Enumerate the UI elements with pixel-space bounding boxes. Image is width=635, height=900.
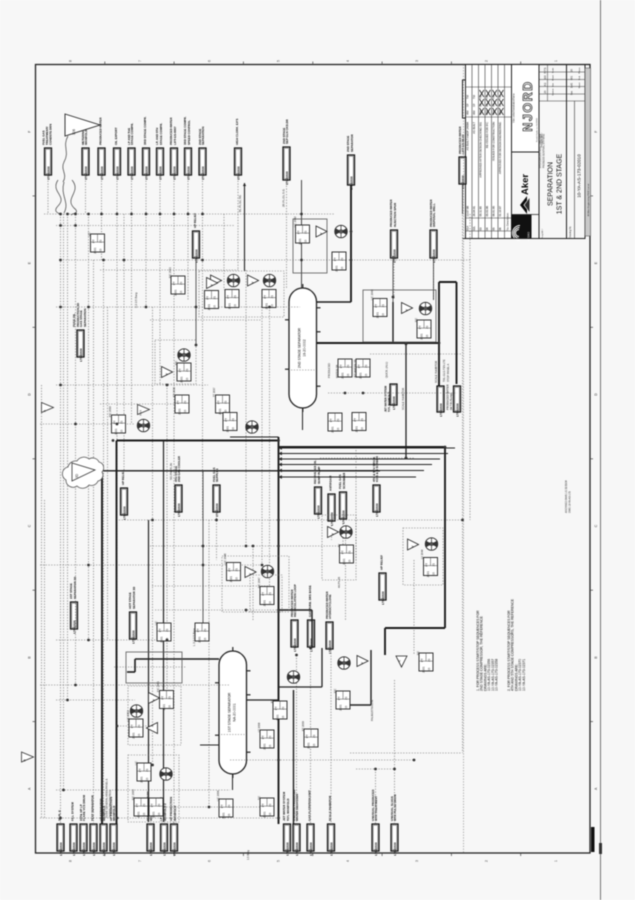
svg-text:3D: 3D (75, 473, 79, 478)
svg-text:Prosjekt tittel /: Prosjekt tittel / (541, 132, 544, 147)
svg-text:LTS-02030: LTS-02030 (172, 166, 176, 180)
svg-text:16-20-0002: 16-20-0002 (303, 339, 307, 356)
svg-text:10-YA-AS-173-02010: 10-YA-AS-173-02010 (577, 154, 582, 198)
svg-text:B: B (22, 759, 26, 761)
svg-text:PT: PT (297, 230, 301, 234)
svg-text:LTS-02030: LTS-02030 (329, 842, 333, 856)
svg-text:LTS-02030: LTS-02030 (293, 638, 297, 652)
svg-text:SO.PN.JS.JN: SO.PN.JS.JN (169, 463, 173, 480)
svg-text:115: 115 (268, 601, 272, 606)
svg-text:PT: PT (161, 696, 165, 700)
svg-text:5: 5 (277, 860, 281, 862)
svg-text:SPEED CONTROL: SPEED CONTROL (187, 120, 191, 145)
svg-text:2031: 2031 (229, 576, 233, 583)
svg-text:7: 7 (138, 60, 142, 62)
svg-text:21: 21 (281, 706, 285, 710)
svg-text:21: 21 (268, 592, 272, 596)
svg-text:2031: 2031 (262, 811, 266, 818)
svg-text:2031: 2031 (159, 636, 163, 643)
svg-text:05: 05 (492, 227, 496, 230)
svg-text:PT: PT (92, 239, 96, 243)
svg-text:PT: PT (374, 304, 378, 308)
svg-text:115: 115 (157, 812, 161, 817)
svg-text:4: 4 (346, 60, 350, 62)
svg-text:115: 115 (179, 290, 183, 295)
svg-text:115: 115 (231, 427, 235, 432)
svg-text:LTS-02030: LTS-02030 (100, 166, 104, 180)
svg-text:A3: A3 (543, 82, 547, 86)
svg-text:21: 21 (431, 563, 435, 567)
svg-text:04: 04 (485, 227, 489, 230)
svg-text:21: 21 (142, 803, 146, 807)
svg-text:115: 115 (304, 239, 308, 244)
svg-text:21: 21 (167, 696, 171, 700)
svg-text:NJORD: NJORD (521, 80, 535, 131)
svg-text:21: 21 (312, 734, 316, 738)
svg-text:2031: 2031 (139, 776, 143, 783)
svg-text:PT: PT (353, 418, 357, 422)
svg-text:PIC 2031: PIC 2031 (168, 267, 172, 278)
svg-text:8: 8 (69, 60, 73, 62)
svg-text:3: 3 (415, 60, 419, 62)
svg-text:2031: 2031 (298, 238, 302, 245)
svg-text:PT: PT (329, 418, 333, 422)
svg-text:115: 115 (227, 813, 231, 818)
svg-text:PRODUCED WATER: PRODUCED WATER (446, 384, 450, 410)
svg-text:LTS-02030: LTS-02030 (381, 591, 385, 605)
svg-text:XXX: XXX (138, 410, 142, 416)
svg-text:PT: PT (270, 699, 274, 703)
svg-text:3: 3 (415, 860, 419, 862)
svg-text:OIL EXPORT: OIL EXPORT (114, 127, 118, 145)
svg-text:Sheet: Sheet (578, 82, 581, 88)
svg-text:ANTIFOAM: ANTIFOAM (329, 475, 333, 491)
svg-text:TRL-GLG-TEN.LTE: TRL-GLG-TEN.LTE (442, 359, 446, 382)
svg-text:2031: 2031 (426, 571, 430, 578)
svg-text:PT: PT (138, 768, 142, 772)
svg-text:21: 21 (157, 803, 161, 807)
svg-text:PT: PT (158, 628, 162, 632)
svg-text:Sheet: Sheet (552, 75, 555, 81)
svg-text:5: 5 (277, 60, 281, 62)
svg-text:GAS FLOTATION UNIT: GAS FLOTATION UNIT (308, 790, 312, 821)
svg-text:LT 2058: LT 2058 (257, 722, 261, 732)
svg-text:TEST SEPARATOR: TEST SEPARATOR (91, 794, 95, 821)
svg-text:TT 2037: TT 2037 (212, 387, 216, 397)
svg-text:6: 6 (207, 60, 211, 62)
svg-text:2031: 2031 (227, 303, 231, 310)
svg-text:LV 2044: LV 2044 (420, 549, 424, 559)
svg-text:PT: PT (261, 735, 265, 739)
svg-text:LTS-02030: LTS-02030 (144, 166, 148, 180)
svg-text:2031: 2031 (330, 426, 334, 433)
svg-text:SCALE INHIBITOR: SCALE INHIBITOR (434, 361, 438, 383)
svg-text:2031: 2031 (93, 247, 97, 254)
svg-text:LTS-02030: LTS-02030 (84, 166, 88, 180)
svg-text:LIC: LIC (87, 232, 91, 236)
svg-text:2031: 2031 (262, 743, 266, 750)
svg-text:115: 115 (137, 733, 141, 738)
svg-text:MANIFOLD: MANIFOLD (173, 806, 177, 821)
svg-text:LTS-02030: LTS-02030 (295, 842, 299, 856)
svg-text:PIC: PIC (333, 689, 337, 693)
svg-text:LTS-02030: LTS-02030 (316, 505, 320, 519)
svg-text:2R.PL.OL.S.G: 2R.PL.OL.S.G (282, 189, 286, 207)
svg-text:SP: SP (466, 103, 470, 107)
svg-text:PIC 2030: PIC 2030 (108, 406, 112, 417)
svg-text:2031: 2031 (338, 704, 342, 711)
svg-text:8: 8 (69, 860, 73, 862)
svg-text:115: 115 (312, 743, 316, 748)
svg-text:V: V (248, 573, 252, 575)
svg-text:NA-20-0001: NA-20-0001 (233, 703, 237, 721)
svg-text:PT 2059: PT 2059 (301, 721, 305, 731)
svg-text:FIC 2055: FIC 2055 (131, 789, 135, 800)
svg-text:PIC 2051: PIC 2051 (156, 681, 160, 692)
svg-text:AS BUILT: AS BUILT (472, 122, 476, 134)
svg-text:NTS: NTS (543, 68, 547, 74)
svg-text:115: 115 (360, 427, 364, 432)
svg-text:1of1: 1of1 (570, 82, 574, 88)
svg-text:100: 100 (543, 75, 547, 80)
svg-text:3RD STAGE COMPR.: 3RD STAGE COMPR. (143, 116, 147, 145)
svg-text:115: 115 (213, 305, 217, 310)
svg-text:SEPARATOR 3D: SEPARATOR 3D (132, 587, 136, 609)
svg-text:LTS-02030: LTS-02030 (115, 166, 119, 180)
svg-text:3.2-3.5 Barg: 3.2-3.5 Barg (134, 292, 138, 308)
svg-text:V: V (331, 533, 335, 535)
svg-text:2031: 2031 (358, 372, 362, 379)
svg-text:LTS-02030: LTS-02030 (162, 842, 166, 856)
svg-text:STAGE COMPR.: STAGE COMPR. (130, 123, 134, 145)
svg-text:115: 115 (99, 248, 103, 253)
svg-text:LTS-02030: LTS-02030 (309, 842, 313, 856)
svg-text:LIC 2052: LIC 2052 (126, 710, 130, 721)
svg-text:STOP PANEL A: STOP PANEL A (446, 364, 450, 382)
svg-text:115: 115 (168, 705, 172, 710)
svg-text:06.01.95: 06.01.95 (492, 206, 496, 217)
svg-text:LTS-02030: LTS-02030 (186, 166, 190, 180)
svg-text:LIFT-GS-0007: LIFT-GS-0007 (173, 126, 177, 145)
svg-text:1.5 Barg: 1.5 Barg (246, 850, 250, 860)
svg-text:1: 1 (554, 860, 558, 862)
svg-text:HIGH CLORK. EX'S: HIGH CLORK. EX'S (235, 119, 239, 145)
svg-text:LTS-02030: LTS-02030 (330, 512, 334, 526)
svg-text:WATER DEGASSER: WATER DEGASSER (295, 793, 299, 821)
svg-text:ISSUED FOR CONSTRUCTION: ISSUED FOR CONSTRUCTION (492, 122, 496, 161)
svg-text:L 3.2-3.5 Barg: L 3.2-3.5 Barg (192, 628, 196, 646)
svg-text:2031: 2031 (419, 333, 423, 340)
svg-text:V: V (165, 373, 169, 375)
svg-text:2031: 2031 (334, 265, 338, 272)
svg-text:System: System (552, 88, 555, 95)
svg-text:LTS-02030: LTS-02030 (79, 348, 83, 362)
svg-text:LIC 2043: LIC 2043 (370, 289, 374, 300)
svg-text:F: F (594, 131, 598, 133)
svg-text:PT: PT (135, 803, 139, 807)
svg-text:2031: 2031 (151, 811, 155, 818)
svg-text:LTS-02030: LTS-02030 (341, 510, 345, 524)
svg-text:FIC: FIC (414, 318, 418, 322)
svg-text:SEPARATION: SEPARATION (83, 308, 87, 327)
svg-text:21: 21 (268, 735, 272, 739)
svg-text:115: 115 (381, 313, 385, 318)
svg-text:LIC 2046: LIC 2046 (223, 553, 227, 564)
svg-text:HP RELIEF: HP RELIEF (121, 470, 125, 485)
svg-text:LIFT-GS-06-03: LIFT-GS-06-03 (461, 134, 465, 154)
svg-text:PT: PT (196, 628, 200, 632)
svg-text:TO'L MANIFOLD: TO'L MANIFOLD (286, 799, 290, 821)
svg-text:2: 2 (485, 60, 489, 62)
svg-text:SEP GLN CKD.DR: SEP GLN CKD.DR (285, 118, 289, 144)
svg-text:Description: Description (506, 212, 510, 226)
svg-text:AS BUILT AMOP 24094: AS BUILT AMOP 24094 (466, 122, 470, 151)
svg-text:2031: 2031 (354, 426, 358, 433)
svg-text:115: 115 (364, 373, 368, 378)
svg-text:PT: PT (425, 563, 429, 567)
svg-text:SP: SP (472, 103, 476, 107)
svg-text:A3 Aker Engineering P&ID forma: A3 Aker Engineering P&ID format (587, 183, 590, 216)
svg-text:LTS-02030: LTS-02030 (455, 403, 459, 417)
svg-text:MANIFOLD: MANIFOLD (84, 130, 88, 145)
svg-text:V: V (411, 545, 415, 547)
svg-text:RECIRCULATION LOOP: RECIRCULATION LOOP (293, 584, 297, 617)
svg-text:115: 115 (185, 377, 189, 382)
svg-text:2031: 2031 (264, 303, 268, 310)
svg-text:1ST & 2ND STAGE: 1ST & 2ND STAGE (557, 153, 564, 214)
svg-text:21: 21 (347, 550, 351, 554)
svg-text:21: 21 (119, 420, 123, 424)
svg-text:26.04.91: 26.04.91 (472, 206, 476, 217)
svg-text:2031: 2031 (375, 312, 379, 319)
svg-text:21: 21 (425, 325, 429, 329)
svg-text:001: 001 (570, 75, 574, 80)
svg-text:2031: 2031 (177, 408, 181, 415)
svg-text:SUPPLY 1: SUPPLY 1 (215, 468, 219, 482)
svg-text:JET WATER SYSTEM: JET WATER SYSTEM (384, 386, 388, 412)
svg-text:01A: 01A (466, 226, 470, 231)
svg-text:LIC 2042: LIC 2042 (293, 216, 297, 227)
svg-text:LTS-02030: LTS-02030 (393, 842, 397, 856)
svg-text:F: F (28, 131, 32, 133)
svg-text:21: 21 (381, 304, 385, 308)
svg-text:2031: 2031 (306, 742, 310, 749)
svg-text:BL.PL.GL.SG: BL.PL.GL.SG (238, 195, 242, 212)
svg-text:115: 115 (336, 427, 340, 432)
svg-text:6: 6 (207, 860, 211, 862)
svg-text:TIC: TIC (257, 796, 261, 800)
svg-text:PIC: PIC (174, 361, 178, 365)
svg-text:PT: PT (176, 400, 180, 404)
svg-text:LIC: LIC (134, 761, 138, 765)
svg-text:2031: 2031 (221, 812, 225, 819)
svg-text:1: 1 (554, 60, 558, 62)
svg-text:2: 2 (485, 860, 489, 862)
svg-text:SCRUBBER: SCRUBBER (342, 472, 346, 489)
svg-text:LTS-02030: LTS-02030 (92, 842, 96, 856)
svg-text:Våre enhet/Installation/Name: Våre enhet/Installation/Name (513, 92, 516, 122)
svg-text:2ND GAS COOLER: 2ND GAS COOLER (177, 455, 181, 482)
svg-text:PT: PT (228, 568, 232, 572)
svg-text:115: 115 (183, 409, 187, 414)
svg-text:DWG 10-YA-AS-173: DWG 10-YA-AS-173 (569, 491, 572, 513)
svg-text:V: V (360, 662, 364, 664)
svg-text:05.11.95: 05.11.95 (479, 206, 483, 217)
svg-text:V: V (210, 284, 214, 286)
svg-text:21: 21 (427, 658, 431, 662)
svg-text:21: 21 (231, 418, 235, 422)
svg-text:PALK/USTRA.LTE: PALK/USTRA.LTE (370, 699, 374, 721)
svg-text:LTS-02030: LTS-02030 (177, 503, 181, 517)
svg-text:LTS-02030: LTS-02030 (130, 166, 134, 180)
svg-text:INJECTION SPUR: INJECTION SPUR (393, 202, 397, 227)
svg-text:PT: PT (339, 364, 343, 368)
svg-text:21: 21 (346, 364, 350, 368)
svg-text:LTS-02030: LTS-02030 (112, 842, 116, 856)
svg-text:21: 21 (340, 257, 344, 261)
svg-text:2031: 2031 (114, 428, 118, 435)
svg-text:115: 115 (142, 812, 146, 817)
svg-text:115: 115 (235, 577, 239, 582)
svg-text:TO'L MANIFOLD: TO'L MANIFOLD (387, 392, 391, 412)
svg-text:PT: PT (261, 803, 265, 807)
svg-text:21: 21 (98, 239, 102, 243)
svg-text:21: 21 (145, 768, 149, 772)
svg-text:HP RELIEF: HP RELIEF (380, 555, 384, 570)
svg-text:PT: PT (150, 803, 154, 807)
svg-text:44.PN.2R: 44.PN.2R (337, 577, 341, 588)
svg-text:PT: PT (357, 364, 361, 368)
svg-text:115: 115 (348, 559, 352, 564)
svg-text:05.03.96: 05.03.96 (485, 206, 489, 217)
svg-text:Drawing No.: Drawing No. (569, 225, 572, 238)
svg-text:115: 115 (203, 637, 207, 642)
svg-text:21: 21 (336, 418, 340, 422)
svg-text:21: 21 (185, 368, 189, 372)
svg-text:PT: PT (420, 658, 424, 662)
svg-text:LTS-02030: LTS-02030 (46, 166, 50, 180)
svg-text:7: 7 (138, 860, 142, 862)
svg-text:V: V (150, 725, 154, 727)
svg-text:115: 115 (432, 572, 436, 577)
svg-text:2031: 2031 (179, 376, 183, 383)
svg-text:SCALE INHIBITOR: SCALE INHIBITOR (328, 795, 332, 821)
svg-text:V: V (405, 309, 409, 311)
svg-text:2031: 2031 (162, 704, 166, 711)
svg-text:LTS-02030: LTS-02030 (172, 842, 176, 856)
svg-text:LTS-02030: LTS-02030 (82, 842, 86, 856)
svg-text:115: 115 (268, 812, 272, 817)
svg-text:SEPARATION: SEPARATION (201, 126, 205, 145)
svg-text:21: 21 (234, 568, 238, 572)
svg-text:LTS-02030: LTS-02030 (59, 842, 63, 856)
svg-text:2031: 2031 (197, 636, 201, 643)
svg-text:115: 115 (346, 373, 350, 378)
svg-text:LTS-02030: LTS-02030 (285, 842, 289, 856)
svg-text:21: 21 (165, 628, 169, 632)
svg-text:115: 115 (344, 705, 348, 710)
svg-text:115: 115 (268, 744, 272, 749)
svg-text:FIC: FIC (416, 651, 420, 655)
svg-text:21: 21 (360, 418, 364, 422)
svg-text:21: 21 (303, 230, 307, 234)
svg-text:2031: 2031 (173, 289, 177, 296)
svg-text:WTR PULSE DRUM: WTR PULSE DRUM (393, 794, 397, 821)
svg-text:A: A (42, 410, 46, 412)
svg-text:LTS-02030: LTS-02030 (439, 403, 443, 417)
svg-text:PT: PT (220, 804, 224, 808)
svg-text:02L: 02L (472, 226, 476, 231)
svg-text:TW: TW (472, 94, 476, 99)
svg-text:LTS-02030: LTS-02030 (72, 842, 76, 856)
svg-text:SUMP PUMP: SUMP PUMP (317, 466, 321, 484)
svg-text:21: 21 (183, 400, 187, 404)
svg-text:LTS-02030: LTS-02030 (72, 620, 76, 634)
svg-text:MW: MW (472, 110, 476, 115)
svg-text:SEPARATOR 3D: SEPARATOR 3D (73, 577, 77, 599)
svg-text:PT: PT (305, 734, 309, 738)
svg-text:PT: PT (333, 257, 337, 261)
svg-text:APPROVED AFTER DESIGN CHECKING: APPROVED AFTER DESIGN CHECKING 551 (479, 122, 483, 178)
svg-text:2ND STAGE SEPARATOR: 2ND STAGE SEPARATOR (298, 327, 302, 368)
svg-text:21: 21 (268, 803, 272, 807)
svg-text:4: 4 (346, 860, 350, 862)
svg-text:PT: PT (206, 296, 210, 300)
svg-text:OVERFLOW CONTROL: OVERFLOW CONTROL (108, 789, 112, 818)
svg-text:PT: PT (217, 400, 221, 404)
svg-text:CONDSTE DRN: CONDSTE DRN (49, 124, 53, 145)
svg-text:PRODUCED: PRODUCED (327, 363, 331, 378)
svg-text:TW: TW (466, 94, 470, 99)
svg-text:LTS-02030: LTS-02030 (131, 630, 135, 644)
svg-text:PT: PT (263, 295, 267, 299)
svg-text:APPROVED FOR DESIGN ENGINEERI: APPROVED FOR DESIGN ENGINEERING (498, 122, 502, 174)
svg-text:SEPARATION: SEPARATION (548, 162, 555, 206)
svg-text:21: 21 (212, 296, 216, 300)
svg-text:Phase: Phase (579, 67, 581, 74)
svg-text:SLIDE GENERAL AREA PANEL &: SLIDE GENERAL AREA PANEL & (105, 778, 109, 818)
svg-text:LTS-02030: LTS-02030 (201, 166, 205, 180)
svg-text:DISPOSAL WELL: DISPOSAL WELL (432, 203, 436, 227)
svg-text:V: V (319, 232, 323, 234)
svg-text:2031: 2031 (207, 304, 211, 311)
svg-text:QUICK. (ALL): QUICK. (ALL) (385, 362, 389, 378)
svg-text:Aker: Aker (520, 174, 531, 195)
svg-text:PT 2036: PT 2036 (172, 387, 176, 397)
svg-text:Prosj NR /: Prosj NR / (541, 229, 544, 239)
svg-text:LIC: LIC (154, 621, 158, 625)
svg-text:PT: PT (178, 368, 182, 372)
svg-text:LTS-02030: LTS-02030 (392, 396, 396, 410)
svg-text:PT: PT (226, 295, 230, 299)
svg-text:LTS-02030: LTS-02030 (374, 842, 378, 856)
svg-text:21: 21 (203, 628, 207, 632)
svg-text:Scale: Scale (553, 67, 555, 73)
svg-text:WTR TREATMENT: WTR TREATMENT (374, 796, 378, 821)
svg-text:2031: 2031 (342, 558, 346, 565)
svg-text:2031: 2031 (275, 714, 279, 721)
svg-text:STAGE COMPR.: STAGE COMPR. (159, 123, 163, 145)
svg-text:21: 21 (364, 364, 368, 368)
svg-text:13.07.98: 13.07.98 (466, 206, 470, 217)
svg-text:LTS-02030: LTS-02030 (149, 842, 153, 856)
svg-text:LTS-02030: LTS-02030 (215, 503, 219, 517)
svg-text:PT: PT (261, 592, 265, 596)
svg-text:FIC 2047: FIC 2047 (257, 577, 261, 588)
svg-text:LTS-02030: LTS-02030 (236, 166, 240, 180)
svg-text:10-YA-AS-173-02358: 10-YA-AS-173-02358 (495, 659, 499, 691)
svg-text:LV: LV (337, 544, 341, 547)
